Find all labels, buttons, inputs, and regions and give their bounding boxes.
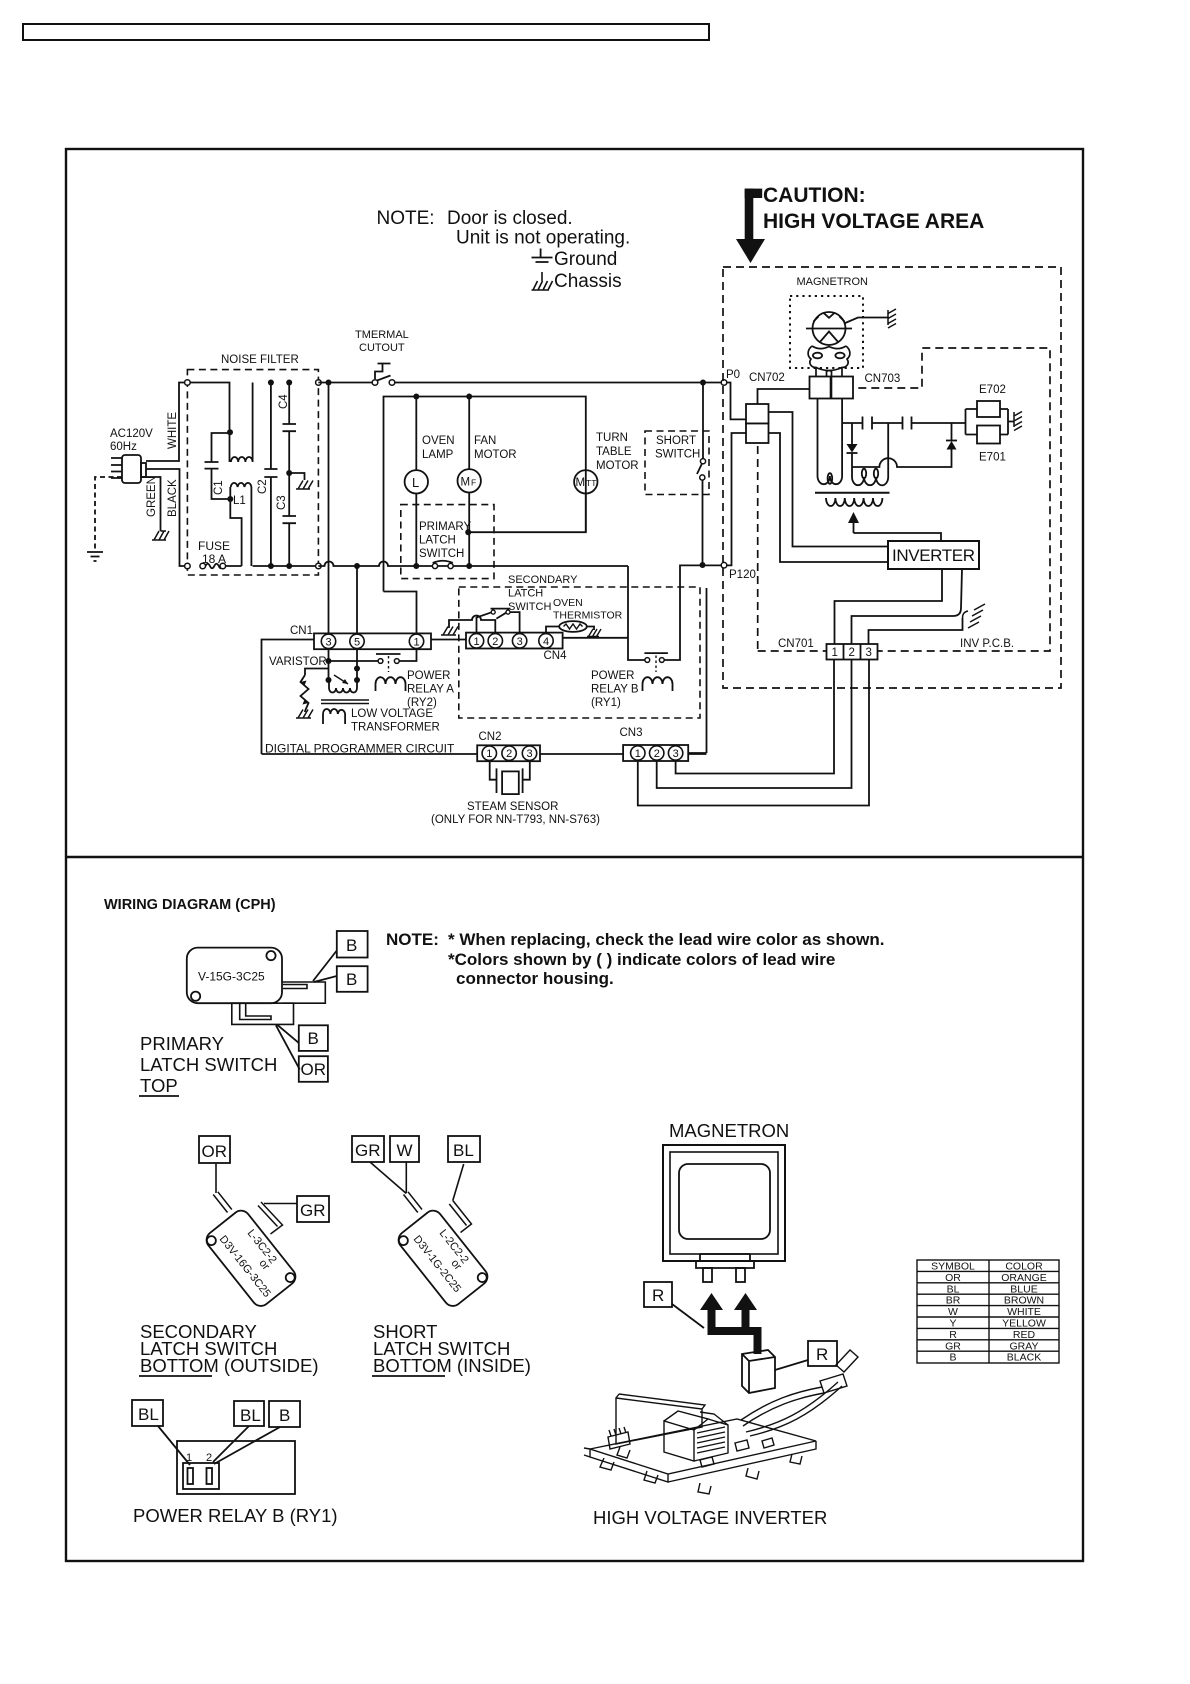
capacitor C1 [205, 433, 231, 499]
svg-text:OR: OR [202, 1142, 228, 1161]
svg-text:RED: RED [1013, 1329, 1036, 1341]
svg-text:PRIMARY: PRIMARY [419, 521, 472, 533]
wire CN1 pin3 to relay A [328, 649, 330, 680]
svg-text:(ONLY FOR NN-T793, NN-S763): (ONLY FOR NN-T793, NN-S763) [431, 814, 600, 826]
svg-text:OR: OR [301, 1060, 327, 1079]
svg-text:2: 2 [492, 636, 498, 648]
ground legend symbol [532, 249, 553, 263]
svg-text:BROWN: BROWN [1004, 1295, 1044, 1307]
HV transformer core [815, 492, 890, 494]
junction dots in noise filter [227, 380, 292, 570]
short latch caption [373, 1321, 531, 1376]
wire from R box to connector [775, 1360, 808, 1370]
svg-text:E702: E702 [979, 384, 1006, 396]
svg-text:P120: P120 [729, 569, 756, 581]
power relay A contact RY2 [376, 653, 401, 655]
svg-text:CN4: CN4 [544, 650, 568, 662]
chassis ground from C3/C4 node [289, 473, 304, 480]
svg-text:WHITE: WHITE [1007, 1306, 1041, 1318]
secondary latch caption [140, 1321, 319, 1376]
wire black from plug [146, 469, 187, 566]
lead wire label R box [644, 1282, 672, 1307]
wire CN3 pin3 to CN701 pin1 [676, 660, 834, 774]
svg-text:SHORT: SHORT [656, 435, 696, 447]
svg-text:RELAY A: RELAY A [407, 684, 454, 696]
HV capacitor chain [842, 422, 966, 424]
wire: main bottom line (left of relay B) with hops [318, 562, 628, 567]
svg-text:CN2: CN2 [479, 731, 502, 743]
svg-text:TABLE: TABLE [596, 446, 632, 458]
svg-text:GR: GR [355, 1141, 381, 1160]
svg-text:R: R [949, 1329, 957, 1341]
svg-text:COLOR: COLOR [1005, 1261, 1043, 1273]
secondary latch switch contacts [449, 616, 495, 633]
svg-text:V-15G-3C25: V-15G-3C25 [198, 970, 265, 984]
svg-text:3: 3 [326, 636, 332, 648]
svg-text:4: 4 [543, 636, 549, 648]
INVERTER box [888, 541, 979, 569]
svg-text:BOTTOM (INSIDE): BOTTOM (INSIDE) [373, 1355, 531, 1376]
svg-text:NOTE:: NOTE: [377, 208, 435, 229]
HV diode D1 [851, 423, 853, 477]
svg-text:NOTE:: NOTE: [386, 930, 439, 949]
dashed earth wire from plug [95, 477, 122, 551]
svg-text:BOTTOM (OUTSIDE): BOTTOM (OUTSIDE) [140, 1355, 319, 1376]
INV P.C.B. dashed boundary [758, 348, 1050, 651]
svg-text:GREEN: GREEN [146, 476, 158, 517]
fan motor MF [468, 397, 470, 470]
svg-text:CN1: CN1 [290, 625, 313, 637]
wire CN3 right stub [688, 752, 706, 754]
svg-text:MAGNETRON: MAGNETRON [797, 276, 869, 288]
section divider line [66, 856, 1083, 858]
oven lamp L [415, 397, 417, 471]
filament connector block [742, 1350, 775, 1393]
svg-text:BLUE: BLUE [1010, 1283, 1037, 1295]
capacitor C2 [264, 383, 277, 567]
junction top line / CN1 pin3 riser [326, 380, 332, 386]
lead wire label R box [808, 1341, 837, 1366]
wire inverter AC input B [769, 433, 889, 562]
inverter drive arrow [853, 523, 855, 534]
secondary latch switch dashed box [459, 587, 700, 718]
wire W to body [405, 1162, 407, 1193]
svg-text:MOTOR: MOTOR [474, 449, 517, 461]
svg-text:P0: P0 [726, 369, 740, 381]
power relay B contact RY1 [644, 652, 668, 654]
low voltage transformer [356, 649, 358, 680]
svg-text:1: 1 [832, 647, 838, 659]
svg-text:E701: E701 [979, 452, 1006, 464]
svg-text:B: B [346, 970, 357, 989]
svg-text:R: R [652, 1286, 664, 1305]
chassis ground (green wire) [152, 531, 169, 540]
svg-text:FUSE: FUSE [198, 539, 230, 553]
lead wire label B box 2 [337, 966, 368, 992]
svg-text:BL: BL [947, 1283, 960, 1295]
svg-text:C2: C2 [257, 479, 269, 494]
oven thermistor [546, 627, 560, 633]
E701 filter [977, 426, 1000, 444]
CN3 connector [623, 745, 688, 761]
svg-text:INVERTER: INVERTER [892, 546, 975, 565]
magnetron stem [696, 1254, 754, 1268]
svg-text:MOTOR: MOTOR [596, 460, 639, 472]
wire OR to body [215, 1163, 217, 1193]
svg-text:TOP: TOP [140, 1075, 178, 1096]
svg-text:TMERMAL: TMERMAL [355, 329, 409, 341]
chassis ground E filters [1014, 412, 1022, 431]
svg-text:(RY1): (RY1) [591, 697, 621, 709]
svg-text:YELLOW: YELLOW [1002, 1318, 1046, 1330]
svg-text:BL: BL [138, 1405, 159, 1424]
lead wire label W box [390, 1136, 419, 1162]
caution high voltage arrow [736, 189, 765, 263]
svg-text:NOISE FILTER: NOISE FILTER [221, 354, 299, 366]
inductor L1 upper winding [230, 383, 253, 463]
wires from labels to pins [158, 1426, 280, 1465]
CN2 connector [477, 745, 540, 761]
junction short switch / bottom right [700, 562, 706, 568]
caution text [763, 184, 984, 233]
svg-text:LAMP: LAMP [422, 449, 454, 461]
wire to OR [276, 1025, 300, 1069]
thermal cutout TMERMAL CUTOUT [375, 364, 391, 380]
wire CN4 to relay B riser [563, 637, 628, 639]
svg-text:SWITCH: SWITCH [655, 449, 700, 461]
primary latch switch dashed box [401, 505, 494, 579]
svg-text:F: F [471, 478, 476, 488]
power relay A coil [376, 677, 406, 691]
relay pin block [183, 1463, 219, 1489]
svg-text:SECONDARY: SECONDARY [508, 574, 578, 586]
primary latch switch caption [140, 1033, 277, 1096]
svg-text:WHITE: WHITE [167, 412, 179, 449]
svg-text:2: 2 [849, 647, 855, 659]
fuse 18A [206, 564, 223, 569]
svg-text:INV P.C.B.: INV P.C.B. [960, 638, 1014, 650]
svg-text:FAN: FAN [474, 435, 496, 447]
chassis ground secondary latch [441, 627, 458, 636]
svg-text:MAGNETRON: MAGNETRON [669, 1120, 789, 1141]
wire to B (1) [313, 951, 337, 982]
relay outline [177, 1441, 295, 1494]
wire green from plug to chassis [141, 477, 161, 531]
oven lamp / fan motor circuit box [384, 397, 586, 592]
outer sheet border [66, 149, 1083, 1561]
inductor L1 lower winding [230, 483, 251, 566]
svg-text:BLACK: BLACK [1007, 1352, 1041, 1364]
svg-text:OVEN: OVEN [553, 597, 583, 609]
svg-text:GR: GR [945, 1340, 961, 1352]
lead wire label GR box [297, 1196, 329, 1222]
noise filter dashed box [187, 370, 318, 575]
lead wire label B box 1 [337, 931, 368, 958]
turn table motor MTT [574, 470, 597, 493]
svg-text:TT: TT [586, 478, 596, 488]
svg-text:BL: BL [240, 1406, 261, 1425]
short switch contacts [697, 383, 703, 566]
svg-text:Y: Y [949, 1318, 956, 1330]
junction dots on box top [413, 394, 472, 536]
wire CN3 pin1 to CN701 pin3 [638, 660, 869, 806]
primary latch terminals lower [232, 1003, 294, 1024]
svg-text:RELAY B: RELAY B [591, 684, 639, 696]
HV return line with hop [852, 449, 952, 467]
svg-text:1: 1 [474, 636, 480, 648]
wire: main top line to thermal cutout [318, 382, 372, 384]
HV diode D2 [946, 440, 957, 442]
primary latch switch contacts [433, 561, 453, 563]
wire white from plug [146, 383, 187, 462]
wire: top line into filter [187, 383, 230, 434]
board feet tabs [600, 1447, 802, 1494]
wire inverter to CN701 pin2 [852, 569, 963, 644]
short latch switch body L-2C2-2 [395, 1207, 491, 1310]
junction dots on bottom line [354, 563, 472, 569]
svg-text:BLACK: BLACK [167, 479, 179, 517]
svg-text:STEAM SENSOR: STEAM SENSOR [467, 801, 558, 813]
wire from R box to arrows [672, 1304, 704, 1328]
svg-text:AC120V: AC120V [110, 428, 153, 440]
svg-text:VARISTOR: VARISTOR [269, 656, 327, 668]
svg-text:ORANGE: ORANGE [1001, 1272, 1047, 1284]
svg-text:W: W [397, 1141, 413, 1160]
svg-text:SWITCH: SWITCH [419, 548, 464, 560]
svg-text:LATCH: LATCH [419, 535, 456, 547]
svg-text:W: W [948, 1306, 958, 1318]
capacitor C3 [283, 473, 297, 566]
svg-text:B: B [308, 1029, 319, 1048]
svg-text:60Hz: 60Hz [110, 441, 137, 453]
svg-text:CN702: CN702 [749, 372, 785, 384]
svg-text:HIGH VOLTAGE INVERTER: HIGH VOLTAGE INVERTER [593, 1507, 827, 1528]
heatsink wall [616, 1394, 705, 1444]
svg-text:* When replacing, check the le: * When replacing, check the lead wire co… [448, 930, 884, 949]
secondary latch switch body L-3C2-2 [203, 1207, 299, 1310]
transformer block [664, 1411, 728, 1461]
wire P0 block to CN702 [758, 389, 810, 404]
svg-text:POWER: POWER [591, 670, 634, 682]
svg-text:OR: OR [945, 1272, 961, 1284]
CN1 connector [314, 633, 431, 649]
svg-text:5: 5 [354, 636, 360, 648]
svg-text:POWER: POWER [407, 670, 450, 682]
svg-text:HIGH VOLTAGE AREA: HIGH VOLTAGE AREA [763, 210, 984, 233]
note: door is closed legend [377, 208, 631, 292]
actuator lever + wire to GR [258, 1202, 283, 1234]
svg-text:GRAY: GRAY [1010, 1340, 1039, 1352]
wire: relay B to P120 node [664, 433, 746, 660]
svg-text:connector housing.: connector housing. [456, 969, 614, 988]
svg-text:GR: GR [300, 1201, 326, 1220]
P0 connector blocks [746, 404, 769, 424]
svg-text:Unit is not operating.: Unit is not operating. [456, 228, 630, 249]
wire CN701 pin3 to chassis [869, 618, 963, 644]
digital programmer circuit box [262, 640, 467, 755]
wire: bottom line through filter [223, 565, 319, 567]
lead wire label BL box [448, 1136, 480, 1162]
svg-text:Chassis: Chassis [554, 271, 622, 292]
svg-text:CUTOUT: CUTOUT [359, 342, 405, 354]
svg-text:C4: C4 [278, 394, 290, 409]
lead wire label BL box [234, 1401, 264, 1426]
svg-text:2: 2 [506, 748, 512, 760]
svg-text:CN3: CN3 [620, 727, 643, 739]
open terminals of filter + fuse [185, 380, 322, 569]
primary latch terminals upper [282, 982, 325, 1003]
lead wire label OR box [199, 1136, 230, 1163]
svg-text:CAUTION:: CAUTION: [763, 184, 866, 207]
short switch dashed box [645, 431, 709, 495]
svg-text:B: B [279, 1406, 290, 1425]
wire inverter to CN701 pin1 [835, 569, 943, 644]
svg-text:L1: L1 [233, 495, 246, 507]
svg-text:BR: BR [946, 1295, 961, 1307]
svg-text:3: 3 [517, 636, 523, 648]
svg-text:Door is closed.: Door is closed. [447, 208, 573, 229]
svg-text:WIRING DIAGRAM (CPH): WIRING DIAGRAM (CPH) [104, 897, 276, 913]
svg-text:CN703: CN703 [865, 373, 901, 385]
svg-text:LATCH SWITCH: LATCH SWITCH [140, 1054, 277, 1075]
magnetron dotted box [790, 296, 863, 368]
svg-text:M: M [576, 477, 586, 489]
svg-text:TURN: TURN [596, 432, 628, 444]
svg-text:R: R [816, 1345, 828, 1364]
wire GR to body [370, 1162, 406, 1194]
lead wire label B box [269, 1401, 300, 1427]
svg-text:SYMBOL: SYMBOL [931, 1261, 975, 1273]
svg-text:C3: C3 [276, 495, 288, 510]
steam sensor [490, 761, 530, 780]
wire inverter AC input A [769, 412, 889, 547]
earth ground symbol [87, 552, 103, 561]
svg-text:C1: C1 [213, 480, 225, 495]
svg-text:3: 3 [673, 748, 679, 760]
svg-text:OVEN: OVEN [422, 435, 455, 447]
capacitor C4 [283, 383, 297, 474]
lead wire label GR box [352, 1136, 384, 1162]
svg-text:2: 2 [206, 1452, 212, 1464]
svg-text:POWER RELAY B (RY1): POWER RELAY B (RY1) [133, 1505, 338, 1526]
wire: CN1 pin5 riser [356, 566, 358, 633]
wire relay A to CN1 pin1 [399, 649, 416, 661]
thick arrows to filament [700, 1293, 762, 1354]
wire to B (3) [277, 1024, 299, 1043]
svg-text:B: B [949, 1352, 956, 1364]
wire fuse riser [230, 499, 241, 566]
magnetron tube symbol [813, 312, 846, 345]
lead wire label B box 3 [299, 1025, 328, 1051]
connector wires [741, 1387, 824, 1426]
wire to B (2) [314, 976, 337, 982]
node P0 [721, 380, 727, 386]
svg-text:M: M [461, 477, 471, 489]
magnetron filament connector CN702/CN703 [810, 377, 854, 399]
svg-text:LOW VOLTAGE: LOW VOLTAGE [351, 708, 433, 720]
svg-text:THERMISTOR: THERMISTOR [553, 610, 623, 622]
wire: CN1 pin1 riser [384, 592, 417, 634]
svg-text:CN701: CN701 [778, 638, 814, 650]
HV transformer primary [826, 498, 882, 506]
svg-text:1: 1 [486, 748, 492, 760]
magnetron base [808, 346, 850, 377]
svg-text:*Colors shown by ( ) indicate: *Colors shown by ( ) indicate colors of … [448, 950, 835, 969]
primary latch switch V-15G-3C25 body [187, 948, 282, 1004]
chassis ground varistor [296, 710, 313, 719]
title bar box (top of page) [23, 24, 709, 40]
chassis ground INV [968, 604, 985, 628]
E702 filter [966, 409, 978, 435]
HV transformer secondary winding [852, 423, 888, 485]
wire CN3 pin2 to CN701 pin2 [657, 660, 852, 789]
svg-text:BL: BL [453, 1141, 474, 1160]
node P120 [721, 562, 727, 568]
junction top line / short switch [700, 380, 706, 386]
svg-text:1: 1 [414, 636, 420, 648]
lead wire label OR box [299, 1056, 328, 1082]
wire: top line cutout to P0 [395, 383, 746, 420]
base board [584, 1419, 816, 1482]
svg-text:L: L [412, 475, 419, 490]
power relay B coil [643, 677, 673, 691]
high voltage area dashed box [723, 267, 1061, 688]
actuator lever + wire to BL [449, 1201, 471, 1233]
note when replacing text [386, 930, 884, 988]
svg-text:2: 2 [654, 748, 660, 760]
magnetron body to chassis [844, 318, 888, 324]
HV transformer filament leads [817, 399, 842, 485]
svg-text:1: 1 [635, 748, 641, 760]
wire: bottom line to relay B [628, 566, 645, 660]
svg-text:TRANSFORMER: TRANSFORMER [351, 722, 440, 734]
CN701 connector [827, 644, 878, 660]
CN4 connector [466, 633, 563, 649]
svg-text:B: B [346, 936, 357, 955]
chassis legend symbol [532, 272, 553, 290]
svg-text:Ground: Ground [554, 249, 617, 270]
svg-text:3: 3 [527, 748, 533, 760]
svg-text:DIGITAL PROGRAMMER CIRCUIT: DIGITAL PROGRAMMER CIRCUIT [265, 742, 455, 756]
left connector with pins [608, 1427, 630, 1449]
svg-text:LATCH: LATCH [508, 588, 543, 600]
svg-text:PRIMARY: PRIMARY [140, 1033, 224, 1054]
wire: CN1 pin3 riser [328, 383, 330, 634]
lead wire label BL box [132, 1400, 163, 1426]
AC plug AC120V 60Hz [111, 455, 146, 483]
small components on board [700, 1438, 774, 1467]
svg-text:3: 3 [866, 647, 872, 659]
